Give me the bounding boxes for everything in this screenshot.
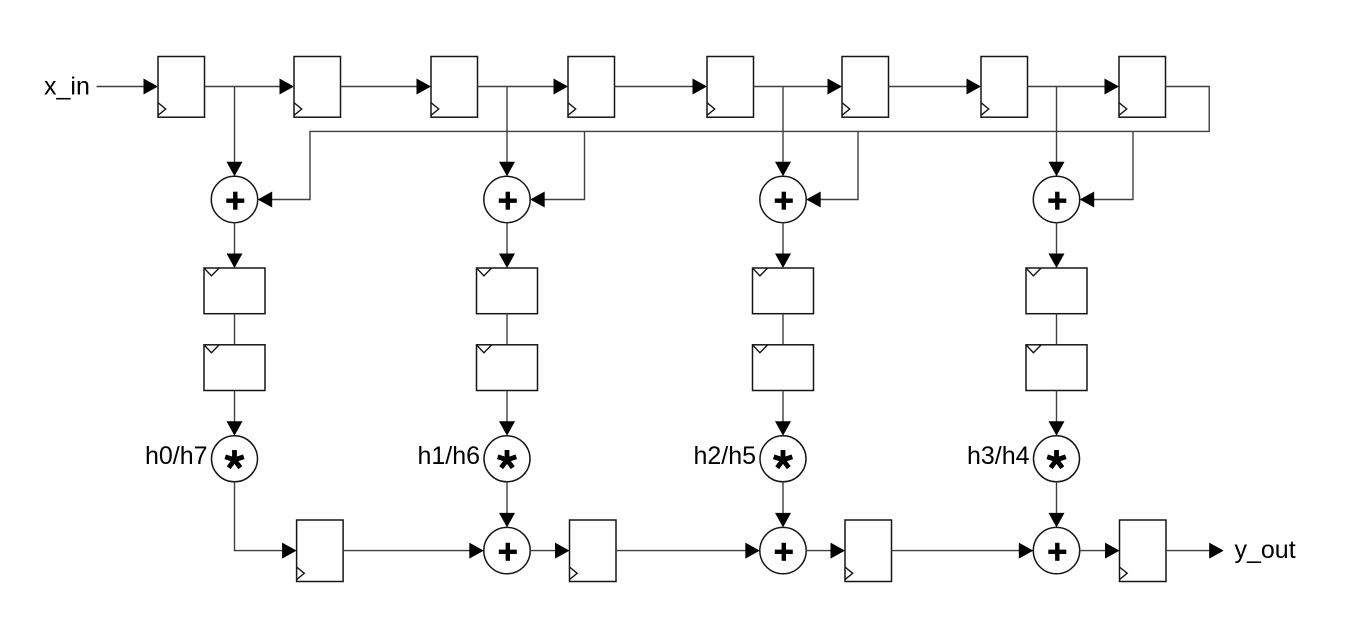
register BR1 (accumulator pipeline): [297, 520, 344, 582]
adder A3: [760, 176, 806, 222]
wire RB1 to multiplier M1: [227, 391, 243, 436]
wire BR1 to adder B2: [343, 543, 484, 559]
register R4 (top delay line): [568, 57, 615, 118]
wire adder A1 to register RA1: [227, 223, 243, 268]
register BR2 (accumulator pipeline): [570, 520, 617, 582]
wire tap after R7 down to adder A4: [1049, 87, 1065, 177]
wire tap after R1 down to adder A1: [227, 87, 243, 177]
wire fold-back drop to adder A3 right input: [806, 131, 858, 207]
adder B2: [484, 527, 530, 573]
wire x_in to R1: [97, 79, 159, 95]
wire BR2 to adder B3: [616, 543, 760, 559]
wire R2 to R3: [341, 79, 432, 95]
wire R3 to R4: [478, 79, 569, 95]
register R1 (top delay line): [158, 57, 205, 118]
register R6 (top delay line): [842, 57, 889, 118]
adder A2: [484, 176, 530, 222]
register RA2 (pipeline): [477, 268, 538, 314]
wire adder A3 to register RA3: [775, 223, 791, 268]
wire adder B4 to BR4: [1080, 543, 1120, 559]
wire fold-back drop to adder A2 right input: [530, 131, 584, 207]
wire RA1 to RB1: [234, 314, 236, 345]
wire BR4 to y_out: [1166, 543, 1224, 559]
register RA3 (pipeline): [753, 268, 814, 314]
register R8 (top delay line): [1119, 57, 1166, 118]
wire M3 to adder B3: [775, 482, 791, 528]
wire R5 to R6: [754, 79, 843, 95]
wire R4 to R5: [615, 79, 708, 95]
svg-text:x_in: x_in: [44, 73, 90, 101]
multiplier M2: [484, 436, 530, 482]
register RB4 (pipeline): [1026, 345, 1087, 391]
svg-text:h1/h6: h1/h6: [417, 442, 480, 470]
wire RB4 to multiplier M4: [1049, 391, 1065, 436]
register R3 (top delay line): [431, 57, 478, 118]
register RA1 (pipeline): [204, 268, 265, 314]
wire RB3 to multiplier M3: [775, 391, 791, 436]
multiplier M1: [212, 436, 258, 482]
svg-text:h3/h4: h3/h4: [967, 442, 1030, 470]
wire adder A2 to register RA2: [499, 223, 515, 268]
wire adder B2 to BR2: [530, 543, 569, 559]
wire RA4 to RB4: [1056, 314, 1058, 345]
adder A1: [211, 176, 257, 222]
register RB3 (pipeline): [753, 345, 814, 391]
register BR3 (accumulator pipeline): [845, 520, 892, 582]
wire R6 to R7: [889, 79, 982, 95]
wire BR3 to adder B4: [892, 543, 1034, 559]
wire R7 to R8: [1028, 79, 1120, 95]
wire RA2 to RB2: [506, 314, 508, 345]
wire M4 to adder B4: [1049, 482, 1065, 528]
multiplier M3: [760, 436, 806, 482]
wire M2 to adder B2: [499, 482, 515, 528]
wire fold-back drop to adder A4 right input: [1080, 131, 1133, 207]
wire adder A4 to register RA4: [1049, 223, 1065, 268]
adder B4: [1033, 527, 1079, 573]
register BR4 (accumulator pipeline): [1120, 520, 1167, 582]
register RB1 (pipeline): [204, 345, 265, 391]
wire RB2 to multiplier M2: [499, 391, 515, 436]
wire R1 to R2: [205, 79, 295, 95]
svg-text:y_out: y_out: [1235, 536, 1296, 564]
register R2 (top delay line): [294, 57, 341, 118]
wire fold-back from R8 output to adder A1 right input: [258, 87, 1209, 208]
wire M1 to register BR1: [235, 482, 297, 559]
register RA4 (pipeline): [1026, 268, 1087, 314]
adder A4: [1033, 176, 1079, 222]
wire RA3 to RB3: [782, 314, 784, 345]
svg-text:h2/h5: h2/h5: [693, 442, 756, 470]
register R7 (top delay line): [981, 57, 1028, 118]
multiplier M4: [1034, 436, 1080, 482]
wire tap after R5 down to adder A3: [775, 87, 791, 177]
wire adder B3 to BR3: [806, 543, 845, 559]
wire tap after R3 down to adder A2: [499, 87, 515, 177]
register R5 (top delay line): [707, 57, 754, 118]
svg-text:h0/h7: h0/h7: [145, 442, 208, 470]
adder B3: [760, 527, 806, 573]
register RB2 (pipeline): [477, 345, 538, 391]
